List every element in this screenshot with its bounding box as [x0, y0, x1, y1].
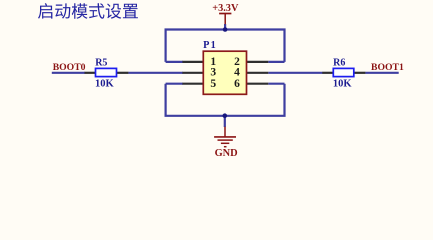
svg-text:4: 4 [234, 67, 240, 79]
svg-text:R6: R6 [333, 58, 345, 69]
svg-text:R5: R5 [95, 58, 107, 69]
svg-text:6: 6 [234, 78, 240, 90]
svg-text:10K: 10K [95, 79, 115, 90]
svg-text:3: 3 [210, 67, 216, 79]
svg-text:BOOT0: BOOT0 [53, 62, 86, 73]
svg-text:10K: 10K [333, 79, 353, 90]
svg-text:GND: GND [215, 148, 238, 159]
svg-text:BOOT1: BOOT1 [371, 62, 404, 73]
svg-text:+3.3V: +3.3V [212, 3, 239, 14]
svg-text:5: 5 [210, 78, 216, 90]
svg-text:P1: P1 [203, 40, 217, 51]
